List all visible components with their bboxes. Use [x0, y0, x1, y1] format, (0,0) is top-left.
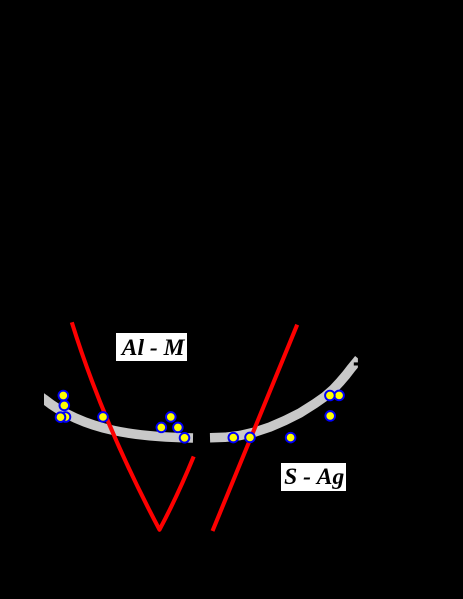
data point P3 [56, 412, 66, 422]
data point P8 [180, 433, 190, 443]
data point P5 [166, 412, 176, 422]
red V curve left [72, 322, 194, 529]
label Al - M [116, 333, 187, 361]
label S - Ag [281, 463, 347, 491]
red line right [213, 325, 298, 531]
data point P13 [334, 391, 344, 401]
data point P7 [173, 423, 183, 433]
data point P10 [245, 433, 255, 443]
data point P11 [286, 433, 296, 443]
data point hidden behind P3 [61, 412, 71, 422]
data point P14 [325, 411, 335, 421]
frame clip right of plot [358, 350, 366, 376]
data point P1 [59, 391, 69, 401]
black tick over curve end [354, 362, 359, 365]
data point P9 [229, 433, 239, 443]
data point P2 [60, 401, 70, 411]
fit curve left (Al-M) [41, 397, 194, 438]
fit curve right (S-Ag) [210, 359, 359, 438]
data point P6 [157, 423, 167, 433]
frame clip left of plot [31, 385, 44, 414]
data point P4 [98, 412, 108, 422]
data point P12 [325, 391, 335, 401]
